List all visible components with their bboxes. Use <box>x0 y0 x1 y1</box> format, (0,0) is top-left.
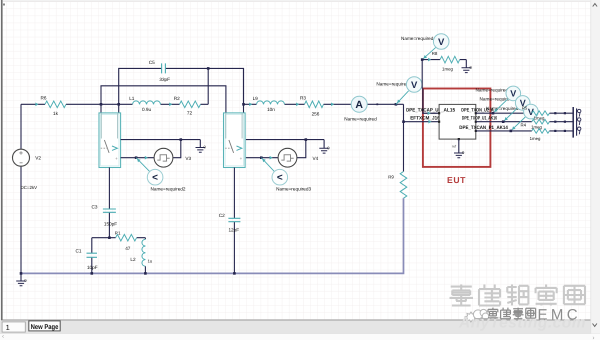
svg-text:1meg: 1meg <box>442 67 454 72</box>
connector termination bar <box>572 107 574 138</box>
bottom tab bar <box>0 321 600 334</box>
svg-text:+: + <box>115 156 118 161</box>
inductor L9 <box>257 101 285 104</box>
svg-text:72: 72 <box>187 111 193 116</box>
page corner mark <box>3 4 5 6</box>
svg-text:C5: C5 <box>149 60 155 65</box>
svg-text:R2: R2 <box>174 96 180 101</box>
svg-text:›: › <box>593 336 595 340</box>
svg-text:12pF: 12pF <box>228 228 239 233</box>
svg-text:DPE_TXOP_U1_AK16: DPE_TXOP_U1_AK16 <box>462 116 497 122</box>
coupling block XF1 <box>99 113 121 168</box>
svg-text:V: V <box>411 80 418 91</box>
ground gnd-V3 <box>199 140 201 148</box>
svg-text:A: A <box>355 99 363 111</box>
wire block1 right pin1 to ground and V3 <box>121 139 201 141</box>
svg-text:New Page: New Page <box>31 324 59 331</box>
wire C5 right plate down to R2 <box>207 68 209 104</box>
pulse source V4 <box>278 148 297 167</box>
cluster wire dots <box>554 112 556 114</box>
resistor R1 <box>116 234 137 241</box>
diagonal to current monitor M3 <box>261 158 274 172</box>
svg-text:ref: ref <box>452 144 456 148</box>
svg-text:47: 47 <box>125 246 131 251</box>
wire V2 vertical branch <box>20 104 22 273</box>
wire block1 top pins <box>101 104 119 113</box>
svg-text:‹: ‹ <box>2 334 4 340</box>
svg-text:EUT: EUT <box>447 175 466 185</box>
svg-text:33pF: 33pF <box>159 77 170 82</box>
svg-text:R5: R5 <box>522 105 528 110</box>
wire main node down row2 into EUT <box>404 121 440 123</box>
inductor L1 <box>133 101 161 104</box>
svg-text:+: + <box>240 156 243 161</box>
svg-text:C2: C2 <box>219 213 225 218</box>
resistor R6 <box>45 101 66 108</box>
svg-text:1meg: 1meg <box>530 136 541 141</box>
voltmeter VM1 <box>433 34 449 50</box>
svg-text:_AL15: _AL15 <box>440 107 455 113</box>
capacitor C2 <box>233 168 235 274</box>
svg-text:R6: R6 <box>41 96 47 101</box>
svg-text:R3: R3 <box>300 96 306 101</box>
svg-text:1meg: 1meg <box>534 115 545 120</box>
svg-text:<: < <box>152 173 158 184</box>
EUT right pin wires rows <box>476 112 573 114</box>
svg-text:L1: L1 <box>129 96 135 101</box>
wire block2 right top pin vertical <box>243 68 245 113</box>
svg-text:10pF: 10pF <box>87 265 98 270</box>
svg-text:EMC: EMC <box>538 306 582 323</box>
capacitor C5 branch wire <box>119 68 244 104</box>
page number box <box>2 322 25 332</box>
wire R8 node down into EUT row1 <box>421 60 423 89</box>
svg-text:V: V <box>438 37 445 48</box>
wire R1 to L2 <box>137 238 146 240</box>
R8 branch: diagonal from voltmeter VM1 <box>422 47 436 59</box>
wire to L9 <box>244 103 404 105</box>
wire block1 right pin2 to V3 left <box>121 157 155 159</box>
wire down to R9 <box>403 104 405 171</box>
ground gnd-V4 <box>323 140 325 149</box>
diagonal to voltmeter VM2 <box>396 91 409 105</box>
resistor R3 <box>305 101 324 108</box>
node dot on C5 wire <box>207 67 210 70</box>
vertical scrollbar <box>591 0 600 334</box>
resistor R8 <box>422 59 466 61</box>
connector pins <box>576 108 578 118</box>
node dots on main wire <box>100 103 103 106</box>
svg-text:L9: L9 <box>253 96 259 101</box>
voltmeter VM4 <box>515 96 530 111</box>
watermark big text <box>450 285 586 306</box>
svg-text:V: V <box>510 89 516 99</box>
node dot C3/R1 <box>108 236 111 239</box>
svg-text:C3: C3 <box>92 205 98 210</box>
wire junction to C1 <box>92 237 116 239</box>
EUT red box <box>423 89 491 167</box>
inductor L2 <box>142 239 145 266</box>
resistor R2 <box>180 101 201 108</box>
svg-text:R8: R8 <box>432 51 438 56</box>
svg-text:1: 1 <box>6 323 10 332</box>
svg-text:V3: V3 <box>185 156 191 161</box>
window left border <box>1 0 3 320</box>
cluster resistors R5 R7 R4 <box>532 111 550 116</box>
svg-text:256: 256 <box>312 111 320 116</box>
New Page tab <box>29 321 60 331</box>
resistor R9 <box>400 172 407 199</box>
capacitor C3 <box>108 168 110 238</box>
svg-text:150pF: 150pF <box>104 222 117 227</box>
voltmeter VM2 <box>406 77 422 93</box>
EUT block pin squares <box>438 112 440 114</box>
horizontal scrollbar strip <box>0 334 600 340</box>
diagonals to cluster voltmeters <box>493 99 508 113</box>
diagonal to current monitor M2 <box>136 158 150 172</box>
wire block2 right pin1 to ground and V4 <box>246 139 324 141</box>
current monitor M3 <box>272 169 288 185</box>
svg-text:1k: 1k <box>53 111 59 116</box>
voltage source V2 <box>13 149 30 166</box>
ground gnd-rail <box>20 273 22 281</box>
svg-text:C1: C1 <box>76 249 82 254</box>
capacitor C5 <box>162 63 166 73</box>
small wire-end dot after ammeter <box>376 103 378 105</box>
bottom ground rail <box>21 198 404 273</box>
svg-text:V4: V4 <box>313 156 319 161</box>
svg-text:DPE_TXCAP_U: DPE_TXCAP_U <box>406 107 439 113</box>
voltmeter VM3 <box>506 86 521 101</box>
svg-text:DC=2kV: DC=2kV <box>21 185 38 190</box>
svg-text:<: < <box>277 173 283 184</box>
svg-text:0.9u: 0.9u <box>142 107 152 112</box>
EUT inner sub-circuit block <box>439 104 476 139</box>
svg-text:1u: 1u <box>148 259 153 264</box>
watermark small CJK text <box>488 308 536 319</box>
coupling block XF2 <box>224 113 246 168</box>
svg-text:R4: R4 <box>521 122 527 127</box>
svg-text:DPE_TXCAN_P1_AK14: DPE_TXCAN_P1_AK14 <box>459 125 508 131</box>
voltmeter VM5 <box>524 104 539 119</box>
svg-text:V2: V2 <box>35 156 41 161</box>
top right V meter branch: node dot <box>395 103 398 106</box>
ammeter A1 <box>351 96 367 112</box>
svg-text:L2: L2 <box>130 257 136 262</box>
svg-text:1meg: 1meg <box>531 125 542 130</box>
svg-text:Name=required4: Name=required4 <box>401 36 436 41</box>
ground gnd-R8 <box>465 60 467 68</box>
capacitor C1 <box>91 238 93 274</box>
wire second level (block1 to block2 top) <box>101 86 226 113</box>
rail node dots <box>20 272 23 275</box>
svg-text:Name=required: Name=required <box>376 82 409 87</box>
current monitor M2 <box>147 169 163 185</box>
watermark cloud icon <box>465 309 489 322</box>
svg-text:R9: R9 <box>388 174 394 179</box>
wire main top horizontal <box>21 103 208 105</box>
EUT internal ground <box>458 139 460 153</box>
wire block2 right pin2 to V4 left <box>246 157 278 159</box>
schematic top border <box>3 0 590 2</box>
pulse source V3 <box>154 148 173 167</box>
svg-text:Name=required3: Name=required3 <box>276 187 311 192</box>
svg-text:Name=required2: Name=required2 <box>150 187 185 192</box>
svg-text:Name=required: Name=required <box>344 116 377 121</box>
svg-text:10n: 10n <box>267 107 275 112</box>
